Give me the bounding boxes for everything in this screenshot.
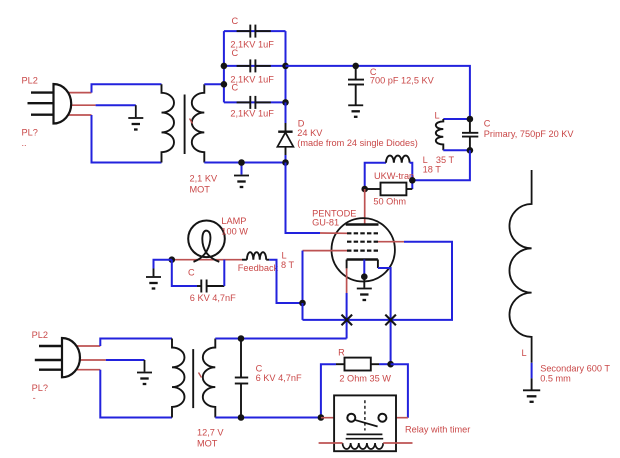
node 700pF tap <box>352 63 359 70</box>
wire blue plug1 top to transformer <box>92 84 162 92</box>
node cap bank left row2 <box>221 63 228 70</box>
svg-text:C: C <box>232 48 239 58</box>
wire red cathode left <box>346 268 348 293</box>
svg-text:L: L <box>282 251 287 261</box>
wire blue cap bank left vertical <box>223 31 225 102</box>
plug PL2b pin 1 <box>39 345 62 347</box>
grid 3 dashes <box>347 232 378 234</box>
ground stub cathode <box>363 277 365 288</box>
svg-text:6 KV 4,7nF: 6 KV 4,7nF <box>256 373 302 383</box>
wire red plug1 mid prong <box>62 104 96 106</box>
svg-text:L: L <box>423 155 428 165</box>
svg-text:24 KV: 24 KV <box>297 128 323 138</box>
wire blue T1 top right to cap bank <box>204 83 224 85</box>
node cap bank right row3 <box>282 99 289 106</box>
wire red grid1 lead <box>303 250 348 252</box>
resistor 50 Ohm leads <box>365 188 381 190</box>
node C 6KV top <box>238 335 245 342</box>
capacitor C 6KV bottom: lower lead <box>240 384 242 418</box>
wire blue grid1 down <box>302 251 304 303</box>
svg-text:PL?: PL? <box>22 128 38 138</box>
svg-text:LAMP: LAMP <box>221 216 246 226</box>
wire red relay right contact <box>386 417 408 419</box>
wire blue R left loop <box>321 364 336 417</box>
capacitor C2 leads <box>237 65 251 67</box>
relay dashed link <box>364 400 366 430</box>
relay contact left <box>347 414 355 422</box>
capacitor C feedback leads <box>197 285 201 287</box>
svg-text:..: .. <box>22 138 27 148</box>
wire blue T2 top rail to tube <box>215 338 346 340</box>
wire blue R right <box>379 363 391 365</box>
ground stub B+ rail <box>241 163 243 175</box>
lamp envelope <box>188 221 225 258</box>
svg-text:Feedback: Feedback <box>238 263 279 273</box>
wire blue top rail to primary <box>286 66 470 119</box>
node R right <box>387 361 394 368</box>
svg-text:L: L <box>522 348 527 358</box>
capacitor C 700pF lead <box>355 66 357 79</box>
node cap bank left T1 feed <box>221 81 228 88</box>
plug PL2 pin 1 <box>31 91 54 93</box>
wire blue feedback cap right riser <box>223 260 225 286</box>
plug PL2b pin 2 <box>35 359 62 361</box>
transformer T1 right winding <box>192 84 205 162</box>
wire blue trap left vertical <box>365 163 386 189</box>
lamp filament loop <box>194 231 220 262</box>
node primary top <box>467 116 474 123</box>
svg-text:D: D <box>298 119 305 129</box>
ground stub plug1 mid <box>135 105 137 117</box>
wire blue plug2 mid to ground <box>106 359 145 361</box>
capacitor C1 leads <box>237 30 251 32</box>
svg-text:MOT: MOT <box>197 439 218 449</box>
wire blue B+ down to grid3 <box>286 163 321 234</box>
wire blue primary bottom <box>443 149 470 151</box>
svg-text:(made from 24 single Diodes): (made from 24 single Diodes) <box>297 138 418 148</box>
wire blue filament left down <box>346 293 348 339</box>
relay switch arm <box>355 420 377 426</box>
svg-text:Primary, 750pF 20 KV: Primary, 750pF 20 KV <box>484 129 575 139</box>
plug PL2 pin 2 <box>28 102 54 104</box>
X junction left <box>342 315 353 326</box>
capacitor C 6KV bottom plates <box>235 377 248 379</box>
node grid1/feedback <box>299 300 306 307</box>
capacitor C primary leads <box>469 119 471 132</box>
plug PL2b body <box>62 338 80 377</box>
capacitor C2 plates <box>249 59 251 72</box>
svg-text:35 T: 35 T <box>436 155 455 165</box>
capacitor C 6KV bottom: top lead <box>240 339 242 378</box>
tube envelope <box>332 218 395 281</box>
transformer T2 core <box>192 349 194 408</box>
wire blue plug1 mid to ground <box>96 104 136 106</box>
svg-text:2 Ohm 35 W: 2 Ohm 35 W <box>339 373 391 383</box>
wire blue secondary bottom <box>531 363 533 379</box>
resistor R leads <box>336 363 345 365</box>
ground cathode <box>357 289 372 301</box>
svg-text:12,7 V: 12,7 V <box>197 428 224 438</box>
node primary bottom <box>467 147 474 154</box>
capacitor C1 plates <box>249 25 251 38</box>
inductor L secondary <box>509 170 531 363</box>
wire red plug2 mid prong <box>70 359 106 361</box>
wire blue diode bottom to rail <box>285 155 287 163</box>
X junction right <box>385 315 396 326</box>
wire red plug1 top prong to node <box>60 92 92 94</box>
wire blue node down to filament rail <box>302 303 304 320</box>
relay box <box>334 395 396 451</box>
inductor L feedback leads <box>242 259 247 261</box>
red tick T2 <box>199 373 202 378</box>
grid 1 dashes <box>347 250 378 252</box>
wire red relay left contact <box>321 417 347 419</box>
node trap left <box>361 186 368 193</box>
node C 6KV bottom <box>238 414 245 421</box>
svg-text:6 KV 4,7nF: 6 KV 4,7nF <box>190 293 236 303</box>
wire red plug2 bottom prong <box>68 369 100 371</box>
wire blue feedback cap loop left <box>172 260 197 286</box>
svg-text:C: C <box>232 83 239 93</box>
wire row3 <box>224 101 286 103</box>
svg-text:-: - <box>33 393 36 403</box>
resistor 50 Ohm body <box>381 183 407 196</box>
node diode bottom <box>282 159 289 166</box>
wire red plug2 top prong <box>68 345 100 347</box>
wire red anode lead <box>364 189 366 225</box>
grid 2 dashes <box>347 241 378 243</box>
inductor L feedback <box>247 252 266 260</box>
svg-text:R: R <box>338 348 345 358</box>
svg-text:C: C <box>484 118 491 128</box>
diode D 24KV <box>285 123 287 132</box>
relay contact right <box>378 414 386 422</box>
transformer T1 2,1KV MOT: left winding <box>162 84 175 162</box>
svg-text:Relay with timer: Relay with timer <box>405 425 470 435</box>
svg-text:C: C <box>188 268 195 278</box>
svg-text:PL?: PL? <box>32 383 48 393</box>
wire red lamp-feedback <box>172 259 242 261</box>
wire blue cathode center <box>363 260 365 277</box>
svg-text:2,1KV 1uF: 2,1KV 1uF <box>230 109 274 119</box>
wire blue plug2 bottom to T2 <box>100 370 172 418</box>
svg-text:8 T: 8 T <box>281 260 294 270</box>
ground B+ rail <box>234 176 249 188</box>
wire blue feedback to grid1 node <box>269 260 302 303</box>
transformer T1 core <box>184 95 186 155</box>
wire red grid3 lead <box>320 232 347 234</box>
wire row2 <box>224 65 286 67</box>
cathode right leg <box>377 260 379 269</box>
wire blue plug2 top to T2 <box>100 339 172 347</box>
capacitor C 700pF plates <box>348 79 364 81</box>
ground plug2 mid <box>137 373 152 385</box>
resistor R body <box>345 358 371 371</box>
transformer T2 right winding <box>203 339 216 418</box>
inductor L primary <box>436 119 444 150</box>
wire red relay coil right <box>383 442 412 444</box>
svg-text:PL2: PL2 <box>22 76 38 86</box>
plug PL2b pin 3 <box>39 369 62 371</box>
svg-text:UKW-trap: UKW-trap <box>374 171 414 181</box>
wire blue trap right vertical <box>410 163 413 189</box>
node bottom rail / relay <box>318 414 325 421</box>
svg-text:C: C <box>256 364 263 374</box>
svg-text:MOT: MOT <box>190 185 211 195</box>
svg-text:18 T: 18 T <box>423 165 442 175</box>
wire blue lamp left to ground <box>154 260 172 269</box>
node trap right <box>409 177 416 184</box>
ground stub lamp <box>153 269 155 277</box>
wire row1 <box>224 30 286 32</box>
wire blue filament right <box>378 268 391 364</box>
wire blue T1 bottom right rail <box>204 162 285 164</box>
wire blue diode top lead <box>285 102 287 123</box>
svg-text:PL2: PL2 <box>32 330 48 340</box>
svg-text:L: L <box>435 110 440 120</box>
inductor L trap <box>386 156 410 163</box>
svg-text:100 W: 100 W <box>221 227 248 237</box>
red tick T1 <box>190 119 193 124</box>
capacitor C3 plates <box>249 96 251 109</box>
ground stub plug2 <box>144 360 146 372</box>
svg-text:0.5 mm: 0.5 mm <box>540 374 571 384</box>
ground stub secondary <box>531 378 533 389</box>
capacitor C feedback plates <box>200 280 202 293</box>
svg-text:Secondary 600 T: Secondary 600 T <box>540 364 610 374</box>
node lamp left <box>169 256 176 263</box>
plug PL2 body <box>54 84 72 124</box>
svg-text:GU-81: GU-81 <box>312 218 339 228</box>
svg-text:2,1 KV: 2,1 KV <box>190 174 218 184</box>
wire blue primary bottom down-left to trap <box>412 150 470 180</box>
ground lamp <box>146 277 161 289</box>
relay core bars <box>347 433 383 435</box>
ground secondary <box>523 390 540 402</box>
capacitor C 700pF lower lead <box>355 85 357 105</box>
wire blue cap bank right vertical <box>285 31 287 102</box>
wire red relay coil left <box>319 442 343 444</box>
wire blue T2 bottom rail <box>215 417 321 419</box>
cathode bar <box>347 258 378 261</box>
capacitor C3 leads <box>237 101 251 103</box>
cathode left leg <box>346 260 348 269</box>
node cathode <box>361 273 368 280</box>
ground plug1 mid <box>128 118 143 130</box>
svg-text:50 Ohm: 50 Ohm <box>373 197 406 207</box>
relay coil <box>343 443 384 449</box>
wire blue plug1 bottom to transformer <box>92 115 162 163</box>
svg-text:700 pF 12,5 KV: 700 pF 12,5 KV <box>370 76 435 86</box>
anode bar <box>346 223 379 226</box>
wire blue grid2 loop <box>303 242 453 320</box>
svg-text:C: C <box>232 16 239 26</box>
node cap bank right row2 <box>282 63 289 70</box>
capacitor C primary plates <box>462 132 478 134</box>
plug PL2 pin 3 <box>31 113 54 115</box>
wire red plug1 bottom prong <box>60 114 92 116</box>
wire blue R right to relay contact <box>391 364 408 418</box>
wire blue primary top <box>443 118 470 120</box>
transformer T2 12,7V MOT: left winding <box>172 339 185 418</box>
node T1 bottom rail <box>238 159 245 166</box>
wire red grid2 lead <box>378 241 404 243</box>
ground 700pF <box>348 105 363 117</box>
